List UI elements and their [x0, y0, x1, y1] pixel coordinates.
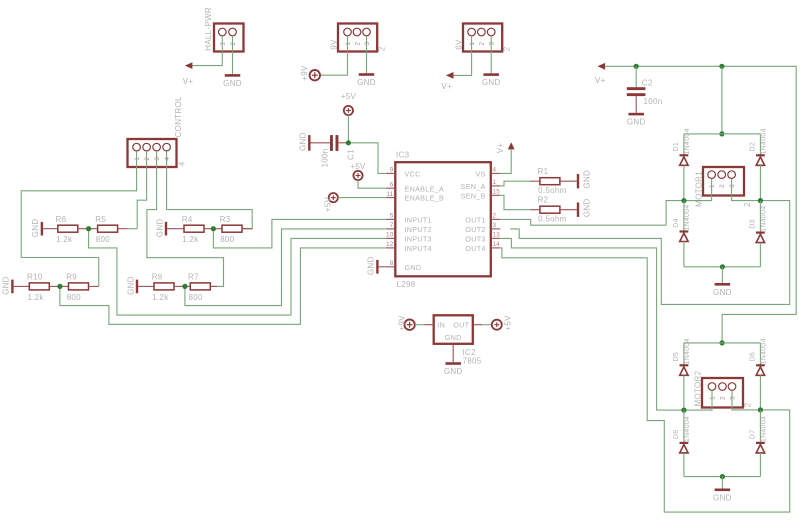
svg-text:2: 2: [719, 184, 726, 188]
svg-text:4: 4: [493, 167, 497, 174]
svg-text:SEN_A: SEN_A: [461, 182, 486, 191]
pin 10 INPUT3 (IC3 left): [386, 232, 432, 244]
ground GND (R2): [577, 198, 592, 217]
pin 1 SEN_A (IC3 right): [461, 179, 501, 191]
pin 11 ENABLE_B (IC3 left): [386, 191, 444, 203]
supply +5V (IC2 out): [492, 315, 513, 331]
wire motor1 gnd stub: [721, 267, 723, 283]
wire V+ to D6: [759, 343, 761, 365]
svg-text:GND: GND: [627, 118, 646, 127]
svg-text:D8: D8: [673, 430, 680, 440]
pin 2 OUT1 (IC3 right): [465, 213, 500, 225]
svg-text:1.2k: 1.2k: [152, 293, 169, 302]
svg-text:D4: D4: [673, 218, 680, 228]
wire CONTROL pin1 to R9: [21, 151, 136, 286]
wire motor2 gnd rail: [684, 476, 761, 478]
ground GND (R6): [31, 219, 43, 238]
wire D2 to motor1 right node: [759, 165, 761, 200]
ground GND (R8): [126, 276, 138, 295]
svg-text:INPUT1: INPUT1: [405, 216, 432, 225]
svg-text:D1: D1: [673, 142, 680, 152]
svg-text:D5: D5: [673, 352, 680, 362]
resistor R5: [89, 215, 128, 244]
wire V+ to motor1 diodes: [721, 66, 723, 134]
wire V+ rail to motor2 top: [605, 66, 796, 343]
supply V+ (6V): [442, 72, 454, 91]
svg-text:+9V: +9V: [300, 65, 309, 81]
svg-text:D6: D6: [749, 352, 756, 362]
wire OUT3 to motor2 left: [500, 238, 684, 410]
wire motor1 top rail: [684, 133, 761, 135]
pin 12 INPUT4 (IC3 left): [386, 241, 432, 253]
supply +5V (ENABLE_B): [324, 193, 338, 212]
wire GND to pin8: [379, 266, 386, 268]
svg-text:C2: C2: [642, 79, 653, 88]
svg-text:OUT4: OUT4: [465, 244, 485, 253]
svg-text:D7: D7: [749, 430, 756, 440]
wire motor2 left node to D8: [683, 410, 685, 443]
wire V+ to D1: [683, 134, 685, 155]
resistor R2: [530, 195, 577, 223]
diode D1: [673, 128, 691, 165]
svg-text:GND: GND: [223, 79, 242, 88]
svg-text:GND: GND: [713, 288, 732, 297]
node C1/+5V junction: [346, 140, 351, 145]
connector 6V: [454, 24, 511, 52]
ground GND (C1): [298, 132, 310, 151]
svg-text:GND: GND: [357, 78, 376, 87]
svg-text:10: 10: [386, 232, 394, 239]
supply +9V (battery): [300, 65, 320, 81]
capacitor C2: [627, 79, 663, 107]
wire CONTROL pin2 to R5: [137, 151, 146, 229]
wire V+ to C2: [635, 66, 637, 87]
wire +9V to IC2 IN: [415, 324, 424, 326]
svg-text:L298: L298: [397, 280, 416, 289]
wire OUT4 to motor2 right: [500, 248, 789, 512]
svg-text:CONTROL: CONTROL: [174, 96, 183, 137]
wire D4 to motor1 gnd rail: [683, 242, 685, 267]
svg-text:+5V: +5V: [341, 92, 357, 101]
wire IC2 OUT to +5V: [482, 324, 492, 326]
svg-text:1.2k: 1.2k: [56, 235, 73, 244]
svg-text:R8: R8: [152, 273, 163, 282]
svg-text:+5V: +5V: [350, 162, 366, 171]
svg-text:1.2k: 1.2k: [182, 235, 199, 244]
svg-text:OUT: OUT: [453, 321, 469, 330]
svg-text:VS: VS: [475, 170, 485, 179]
svg-text:9: 9: [390, 167, 394, 174]
diode D6: [749, 338, 767, 375]
svg-text:GND: GND: [405, 263, 422, 272]
wire R9/R10 junction to INPUT4: [60, 248, 386, 324]
node motor1 right: [758, 198, 763, 203]
node motor2 left: [681, 408, 686, 413]
wire motor1 right node to D3: [759, 201, 761, 233]
node R5/R6 junction: [86, 226, 91, 231]
svg-text:2: 2: [144, 157, 151, 161]
resistor R4: [167, 215, 213, 244]
svg-text:1N4004: 1N4004: [684, 128, 691, 154]
svg-text:3: 3: [364, 42, 371, 46]
diode D8: [673, 416, 691, 453]
pin 15 SEN_B (IC3 right): [461, 189, 501, 201]
resistor R8: [138, 273, 185, 302]
wire HALL-PWR pin2 to GND: [232, 36, 234, 74]
svg-text:0.5ohm: 0.5ohm: [538, 186, 567, 195]
svg-text:1N4004: 1N4004: [761, 416, 768, 442]
wire D5 to motor2 left node: [683, 375, 685, 410]
svg-text:2: 2: [743, 402, 752, 407]
ground GND (6V): [482, 73, 501, 87]
wire D6 to motor2 right node: [759, 375, 761, 410]
capacitor C1: [320, 135, 355, 167]
svg-text:MOTOR1: MOTOR1: [695, 171, 704, 207]
svg-text:VCC: VCC: [405, 170, 421, 179]
node V+/C2 junction: [634, 64, 639, 69]
svg-text:1N4004: 1N4004: [684, 416, 691, 442]
wire D1 to motor1 left node: [683, 165, 685, 200]
svg-text:C1: C1: [346, 149, 355, 160]
svg-text:1N4004: 1N4004: [761, 128, 768, 154]
wire HALL-PWR pin1 to V+: [192, 36, 222, 66]
svg-text:1: 1: [493, 179, 497, 186]
svg-text:0.5ohm: 0.5ohm: [538, 215, 567, 224]
svg-text:HALL-PWR: HALL-PWR: [204, 7, 213, 51]
svg-text:1: 1: [345, 42, 352, 46]
wire 9V pin3 to GND: [366, 36, 368, 73]
connector MOTOR2: [694, 370, 753, 407]
svg-text:2: 2: [743, 202, 752, 207]
svg-text:R10: R10: [27, 273, 43, 282]
ic IC3 L298 body: [395, 150, 491, 288]
supply V+ (rail): [595, 63, 606, 85]
svg-text:GND: GND: [155, 219, 164, 238]
svg-text:+9V: +9V: [397, 315, 406, 331]
diode D4: [673, 204, 691, 241]
svg-text:100n: 100n: [320, 149, 329, 168]
svg-text:800: 800: [96, 235, 110, 244]
svg-text:ENABLE_B: ENABLE_B: [405, 194, 445, 203]
svg-text:R3: R3: [220, 215, 231, 224]
svg-text:IN: IN: [437, 321, 445, 330]
svg-text:R6: R6: [56, 215, 67, 224]
resistor R9: [60, 273, 99, 302]
svg-text:INPUT2: INPUT2: [405, 225, 432, 234]
diode D5: [673, 338, 691, 375]
svg-text:800: 800: [67, 293, 81, 302]
pin 7 INPUT2 (IC3 left): [386, 222, 432, 234]
wire motor2 gnd stub: [721, 477, 723, 489]
svg-text:1: 1: [709, 184, 716, 188]
node R9/R10 junction: [57, 284, 62, 289]
svg-text:3: 3: [493, 222, 497, 229]
svg-text:12: 12: [386, 241, 394, 248]
svg-text:D2: D2: [749, 142, 756, 152]
wire 9V pin1 to +9V: [320, 36, 347, 75]
svg-text:2: 2: [230, 42, 237, 46]
wire motor2 top rail: [684, 342, 761, 344]
svg-text:OUT3: OUT3: [465, 235, 485, 244]
wire SEN_B to R2: [500, 195, 530, 209]
svg-text:2: 2: [502, 46, 511, 51]
svg-text:14: 14: [493, 241, 501, 248]
wire R3/R4 junction to INPUT1: [213, 219, 385, 248]
node motor2 gnd: [720, 474, 725, 479]
svg-text:3: 3: [729, 396, 736, 400]
svg-text:1N4004: 1N4004: [761, 338, 768, 364]
resistor R6: [43, 215, 89, 244]
ground GND (IC2): [444, 362, 463, 376]
node motor1 left: [681, 198, 686, 203]
svg-text:2: 2: [377, 46, 386, 51]
ground GND (R10): [2, 276, 14, 295]
wire R5/R6 junction to INPUT3: [89, 229, 386, 315]
node R3/R4 junction: [211, 226, 216, 231]
pin 6 ENABLE_A (IC3 left): [386, 181, 444, 193]
svg-text:GND: GND: [583, 198, 592, 217]
connector CONTROL: [128, 96, 187, 167]
supply +9V (IC2 in): [397, 315, 414, 331]
resistor R7: [185, 273, 217, 302]
svg-text:100n: 100n: [644, 97, 663, 106]
svg-text:1N4004: 1N4004: [684, 204, 691, 230]
svg-text:3: 3: [489, 42, 496, 46]
wire motor2 right node to D7: [759, 410, 761, 443]
ground GND (R4): [155, 219, 167, 238]
node motor1 gnd: [720, 264, 725, 269]
svg-text:+5V: +5V: [324, 196, 333, 212]
svg-text:INPUT4: INPUT4: [405, 244, 432, 253]
svg-text:15: 15: [493, 189, 501, 196]
wire SEN_A to R1: [500, 181, 530, 186]
svg-text:800: 800: [189, 293, 203, 302]
svg-text:13: 13: [493, 232, 501, 239]
wire motor1 pin3 to right node: [510, 179, 790, 305]
svg-text:3: 3: [729, 184, 736, 188]
svg-text:INPUT3: INPUT3: [405, 235, 432, 244]
resistor R1: [530, 167, 577, 195]
svg-text:3: 3: [154, 157, 161, 161]
svg-text:1.2k: 1.2k: [28, 293, 45, 302]
node V+/motor1 junction: [719, 64, 724, 69]
pin 13 OUT3 (IC3 right): [465, 232, 500, 244]
svg-text:OUT2: OUT2: [465, 225, 485, 234]
connector HALL-PWR: [204, 7, 243, 51]
pin 4 VS (IC3 right): [475, 167, 500, 179]
svg-text:D3: D3: [749, 219, 756, 229]
svg-text:V+: V+: [595, 76, 606, 85]
wire OUT1 to motor1 left: [500, 219, 666, 225]
connector MOTOR1: [695, 167, 752, 207]
svg-text:2: 2: [493, 213, 497, 220]
svg-text:9V: 9V: [329, 39, 338, 50]
wire +5V to C1 junction: [347, 115, 349, 143]
resistor R3: [213, 215, 252, 244]
supply V+ (VS): [496, 142, 515, 153]
svg-text:1: 1: [709, 396, 716, 400]
wire R5 to CONTROL pin2: [128, 228, 138, 230]
ground GND (9V): [357, 73, 376, 87]
wire IC2 GND: [452, 344, 454, 362]
wire C1 junction to VCC pin9: [338, 142, 346, 144]
supply V+ (hall): [183, 62, 194, 86]
pin 9 VCC (IC3 left): [386, 167, 421, 179]
wire motor1 gnd rail: [684, 266, 761, 268]
svg-text:5: 5: [390, 213, 394, 220]
ic IC2 7805 body: [424, 315, 482, 365]
svg-text:R4: R4: [182, 215, 193, 224]
wire 6V pin3 to GND: [490, 36, 492, 73]
ground GND (C2): [627, 113, 646, 127]
node R7/R8 junction: [182, 284, 187, 289]
svg-text:7805: 7805: [463, 357, 482, 366]
svg-text:6: 6: [390, 181, 394, 188]
wire motor2 pin1 to left node: [684, 390, 712, 410]
diode D3: [749, 205, 767, 242]
svg-text:R2: R2: [538, 195, 549, 204]
wire 6V pin1 to V+: [453, 36, 471, 76]
svg-text:OUT1: OUT1: [465, 216, 485, 225]
svg-text:1: 1: [220, 42, 227, 46]
svg-text:800: 800: [220, 235, 234, 244]
svg-text:GND: GND: [583, 170, 592, 189]
wire C1 to GND: [311, 142, 331, 144]
node motor1 V+ split: [719, 131, 724, 136]
svg-text:GND: GND: [2, 276, 11, 295]
svg-text:4: 4: [177, 161, 186, 166]
svg-text:GND: GND: [713, 493, 732, 502]
svg-text:ENABLE_A: ENABLE_A: [405, 184, 445, 193]
ground GND (IC3 pin8): [366, 256, 378, 275]
ground GND (R1): [577, 170, 592, 189]
svg-text:6V: 6V: [454, 39, 463, 50]
wire CONTROL pin3 to R7: [147, 151, 224, 286]
wire V+ to VS pin4: [500, 149, 511, 173]
svg-text:+5V: +5V: [503, 315, 512, 331]
svg-text:R1: R1: [538, 167, 549, 176]
svg-text:1N4004: 1N4004: [684, 338, 691, 364]
supply +5V (C1): [341, 92, 357, 115]
svg-text:R9: R9: [66, 273, 77, 282]
wire R7/R8 junction to INPUT2: [185, 229, 386, 306]
connector 9V: [329, 24, 386, 52]
node motor2 V+: [720, 340, 725, 345]
svg-text:2: 2: [479, 42, 486, 46]
wire motor1 pin1 to left node: [666, 179, 712, 226]
ground GND (motor1): [713, 283, 732, 297]
svg-text:1N4004: 1N4004: [761, 205, 768, 231]
svg-text:8: 8: [390, 260, 394, 267]
svg-text:GND: GND: [445, 333, 462, 342]
pin 8 GND (IC3 left): [386, 260, 422, 272]
wire D8 to motor2 gnd rail: [683, 453, 685, 477]
svg-text:V+: V+: [183, 77, 194, 86]
svg-text:11: 11: [386, 191, 393, 198]
svg-text:4: 4: [164, 157, 171, 161]
svg-text:1: 1: [469, 42, 476, 46]
svg-text:V+: V+: [496, 143, 505, 154]
svg-text:GND: GND: [298, 132, 307, 151]
svg-text:1: 1: [134, 157, 141, 161]
svg-text:2: 2: [720, 396, 727, 400]
svg-text:GND: GND: [126, 276, 135, 295]
wire +5V to ENABLE_A pin6: [358, 180, 386, 188]
ground GND (motor2): [713, 489, 732, 503]
wire D3 to motor1 gnd rail: [759, 243, 761, 267]
ground GND (hall-pwr): [223, 74, 242, 88]
wire +5V to ENABLE_B pin11: [338, 197, 386, 199]
resistor R10: [14, 273, 60, 302]
svg-text:MOTOR2: MOTOR2: [694, 370, 703, 406]
svg-text:SEN_B: SEN_B: [461, 191, 486, 200]
wire C2 to GND: [635, 96, 637, 113]
wire V+ to D2: [759, 134, 761, 155]
svg-text:7: 7: [390, 222, 394, 229]
svg-text:GND: GND: [444, 367, 463, 376]
supply +5V (ENABLE_A): [350, 162, 366, 180]
pin 5 INPUT1 (IC3 left): [386, 213, 432, 225]
svg-text:R5: R5: [95, 215, 106, 224]
diode D7: [749, 416, 767, 453]
svg-text:GND: GND: [482, 78, 501, 87]
diode D2: [749, 128, 767, 165]
svg-text:GND: GND: [366, 256, 375, 275]
pin 14 OUT4 (IC3 right): [465, 241, 500, 253]
node motor2 right: [758, 407, 763, 412]
svg-text:2: 2: [354, 42, 361, 46]
svg-text:R7: R7: [188, 273, 199, 282]
wire motor2 pin3 to right node: [732, 390, 760, 410]
wire motor1 left node to D4: [683, 201, 685, 232]
svg-text:GND: GND: [31, 219, 40, 238]
pin 3 OUT2 (IC3 right): [465, 222, 500, 234]
wire CONTROL pin4 to R3: [167, 151, 253, 229]
svg-text:V+: V+: [442, 82, 453, 91]
wire D7 to motor2 gnd rail: [759, 453, 761, 477]
svg-text:IC3: IC3: [396, 150, 410, 159]
wire V+ to D5: [683, 343, 685, 365]
